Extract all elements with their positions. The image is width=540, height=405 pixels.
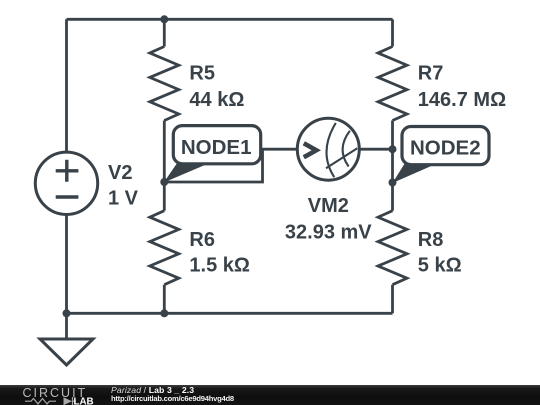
resistor R8: [378, 211, 407, 285]
wire: R5 top lead from junction: [163, 19, 166, 46]
wire: R5 bottom lead to node A: [163, 121, 166, 183]
wire: voltmeter right terminal to node B column: [360, 148, 393, 151]
voltmeter dial arc 2: [343, 131, 350, 167]
svg-text:R5: R5: [189, 63, 215, 85]
voltage source V2: [35, 152, 97, 214]
resistor R6: [150, 211, 179, 285]
svg-text:1 V: 1 V: [108, 188, 139, 210]
svg-text:NODE1: NODE1: [181, 136, 252, 159]
voltmeter chevron: [304, 143, 317, 157]
resistor R7: [378, 47, 407, 121]
svg-text:1.5 kΩ: 1.5 kΩ: [189, 255, 250, 277]
wire: node A to voltmeter left terminal: [164, 149, 297, 182]
svg-text:NODE2: NODE2: [410, 137, 481, 160]
svg-text:146.7 MΩ: 146.7 MΩ: [418, 89, 506, 111]
svg-text:R8: R8: [418, 229, 444, 251]
CircuitLab logo: [0, 385, 110, 405]
node NODE2 callout tail: [393, 163, 439, 183]
junction dot voltmeter right / right column: [389, 145, 397, 153]
junction dot bottom rail / ground: [63, 309, 71, 317]
svg-text:LAB: LAB: [74, 396, 94, 405]
svg-text:VM2: VM2: [308, 195, 349, 217]
resistor R5: [150, 47, 179, 121]
wire: V2 top to top-left corner: [65, 19, 68, 152]
wire: top rail: [67, 18, 393, 21]
node NODE1 callout box: [173, 126, 260, 164]
wire: bottom rail: [67, 312, 393, 315]
wire: R7 bottom lead through junctions: [391, 121, 394, 211]
svg-text:V2: V2: [108, 162, 132, 184]
footer attribution line: [111, 385, 194, 395]
svg-text:44 kΩ: 44 kΩ: [189, 89, 244, 111]
junction dot bottom rail / R6: [160, 309, 168, 317]
wire: top-right corner down to R7: [391, 19, 394, 46]
node NODE2 callout box: [402, 127, 489, 165]
wire: R8 bottom lead: [391, 285, 394, 314]
wire: ground lead: [65, 313, 68, 339]
wire: R6 top lead: [163, 182, 166, 211]
junction dot node A: [160, 178, 168, 186]
svg-text:R7: R7: [418, 63, 444, 85]
node NODE1 callout tail: [164, 162, 212, 183]
V2 minus sign: [56, 195, 79, 198]
wire: R6 bottom lead: [163, 285, 166, 314]
footer bar: [0, 385, 540, 405]
wire: V2 bottom lead: [65, 215, 68, 314]
junction dot top rail / R5: [160, 15, 168, 23]
voltmeter dial arc 1: [327, 123, 336, 177]
voltmeter VM2 body: [297, 118, 359, 180]
svg-text:5 kΩ: 5 kΩ: [418, 255, 462, 277]
svg-text:32.93 mV: 32.93 mV: [285, 221, 372, 243]
V2 plus sign: [56, 160, 79, 182]
junction dot node B: [389, 179, 397, 187]
svg-text:R6: R6: [189, 229, 215, 251]
footer url line: [111, 394, 234, 403]
voltmeter needle: [326, 148, 357, 168]
ground: [40, 339, 93, 365]
